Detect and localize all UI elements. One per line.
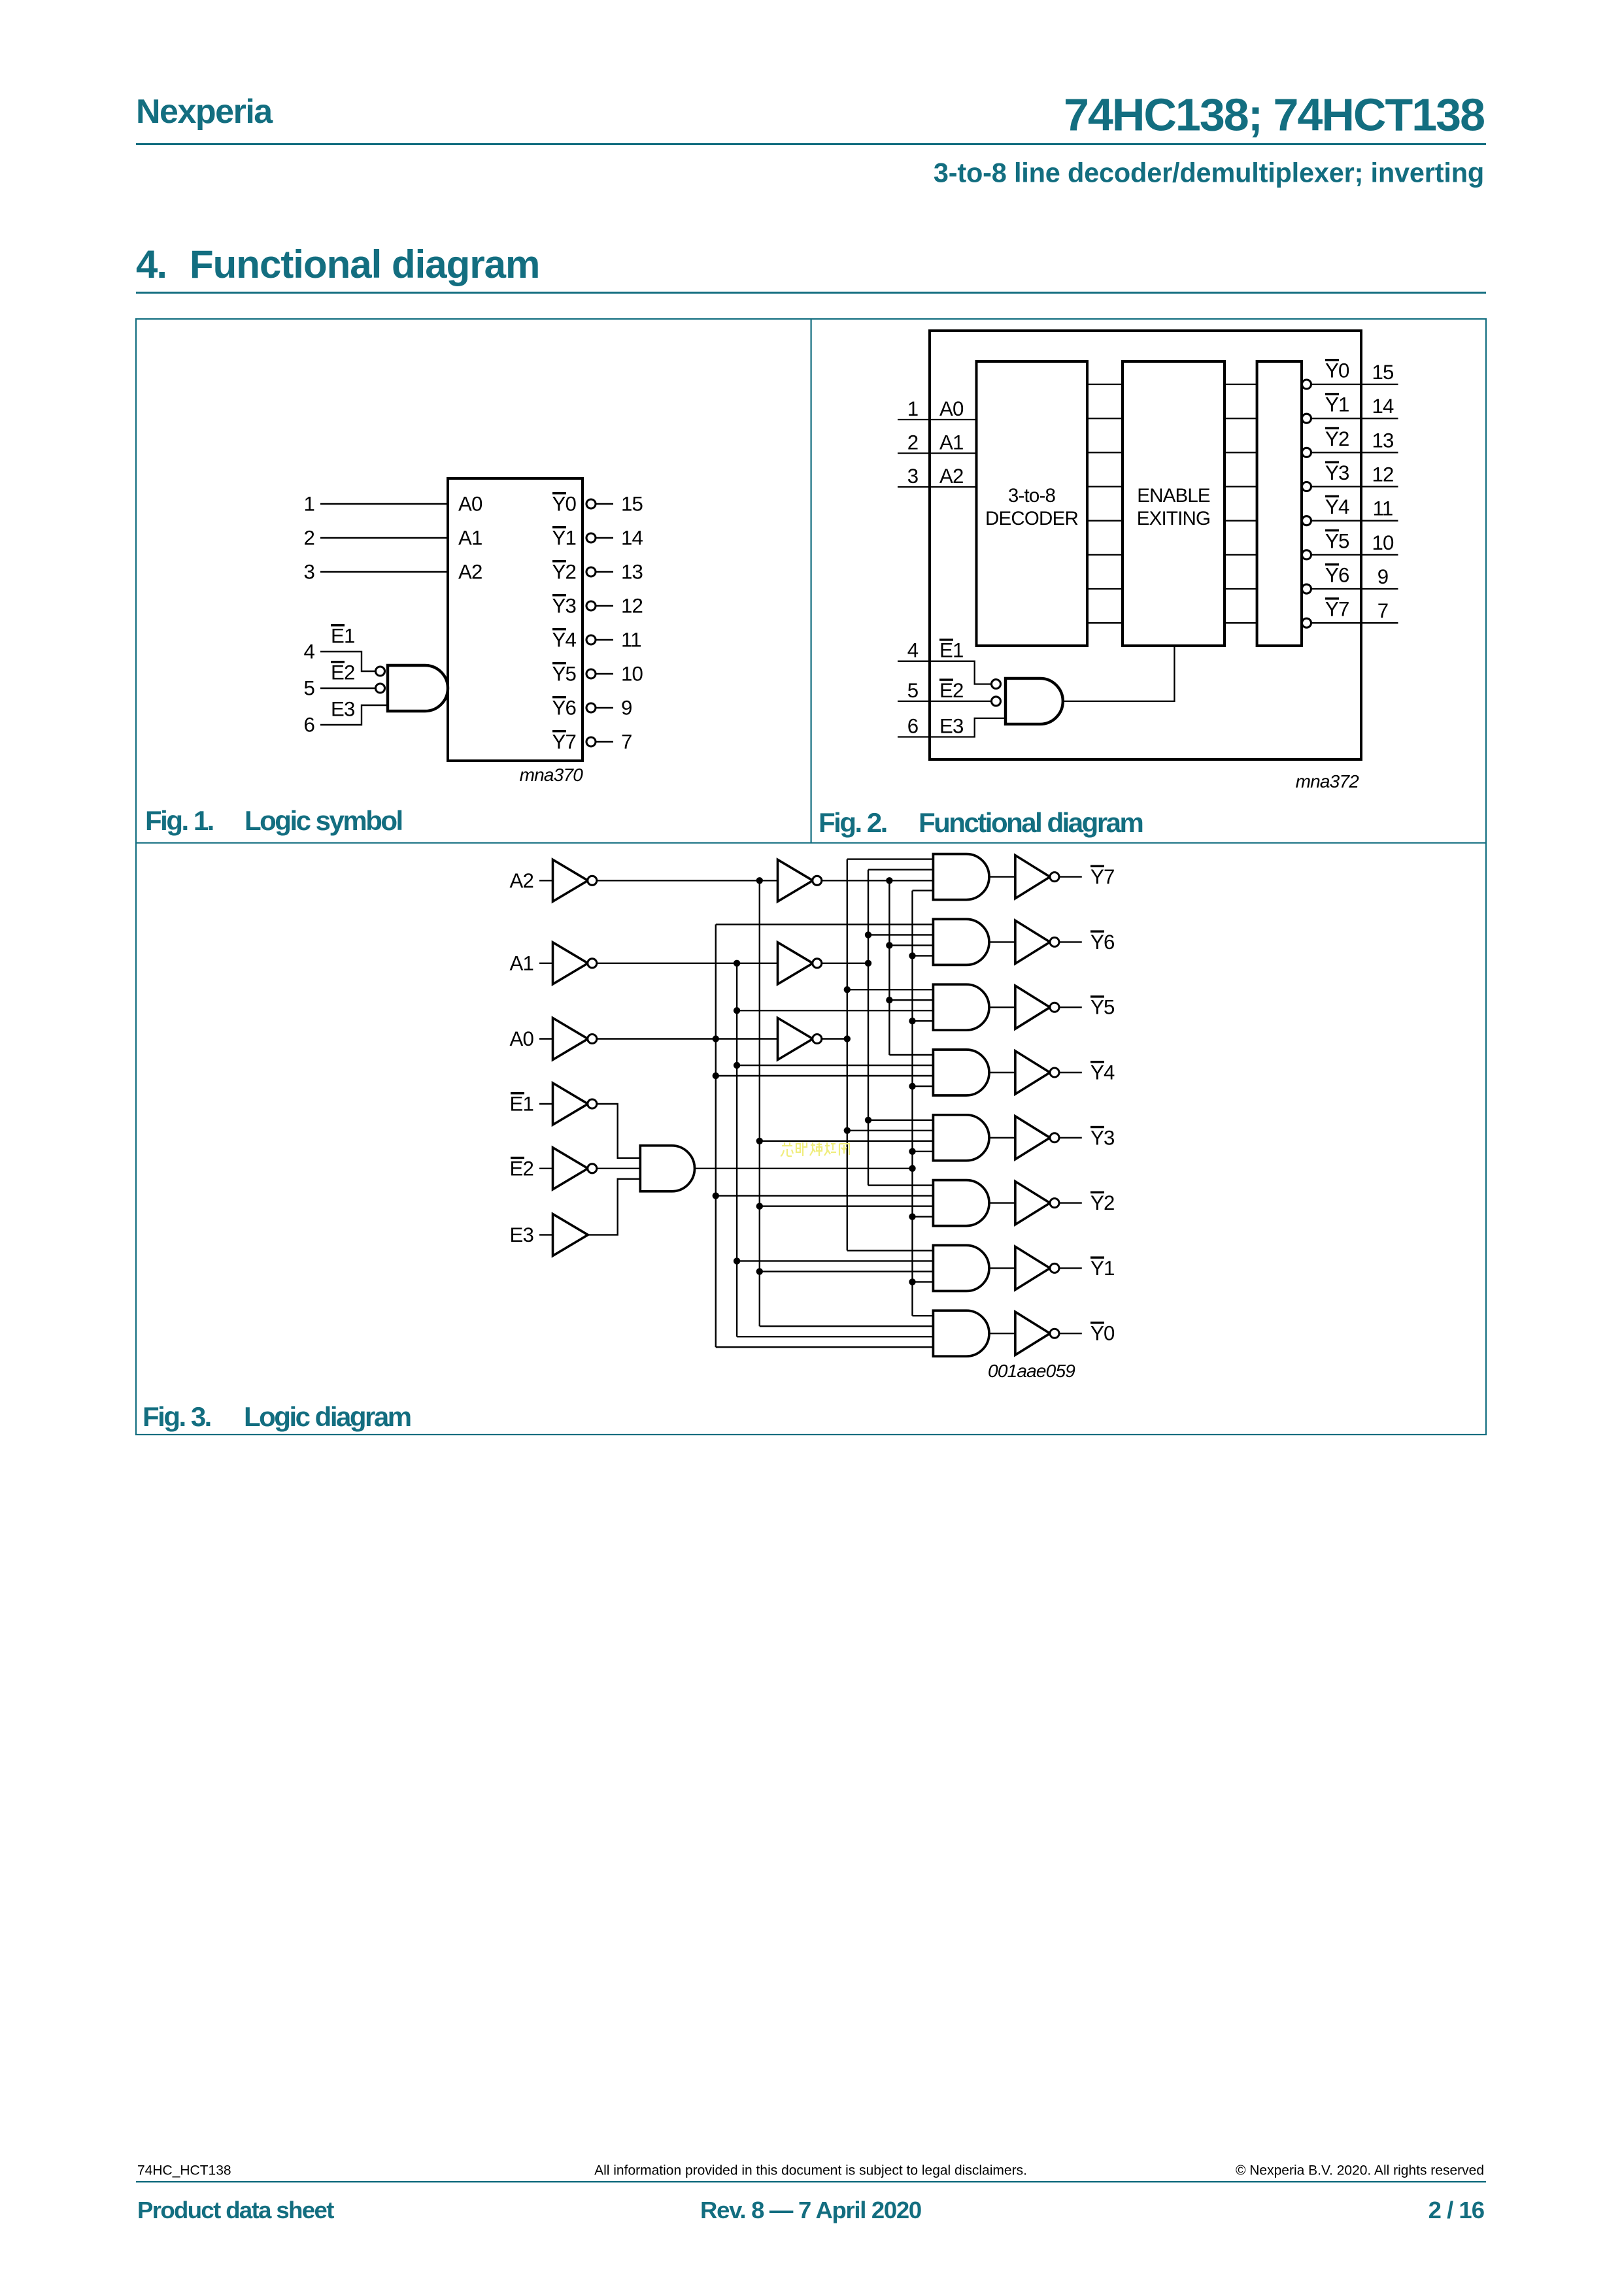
Fig.3 output inverter Y6 [1015,920,1050,963]
Fig.3 wire input 3 of gate Y0 [737,1336,933,1337]
Fig.3 inverter E1 (first stage) [553,1083,588,1125]
Fig.1 wire pin 3 to A2 [320,571,448,573]
Fig.3 wire E2 to enable gate [596,1168,640,1169]
Fig.3 wire input 1 of gate Y0 [913,1315,934,1316]
Fig.2 decoder-to-enable link wire 2 [1087,452,1123,453]
Fig.3 wire A2 complement run [596,880,777,881]
Fig.3 vertical bus A2 complement [759,880,760,1326]
Fig.2 wire pin 6 (E3) to gate [898,718,1005,737]
Fig.3 AND gate Y1 [933,1245,989,1291]
svg-text:Y3: Y3 [1090,1126,1115,1149]
Fig.3 wire gate Y4 to inverter [989,1072,1015,1073]
Fig.2 outer IC boundary box [930,331,1361,759]
svg-text:Y5: Y5 [1325,529,1349,552]
Fig.3 junction on bus at gate Y3 input 3 [756,1138,763,1144]
svg-text:11: 11 [1373,497,1393,520]
Fig.3 junction on bus at gate Y6 input 3 [886,942,892,948]
svg-text:14: 14 [621,527,643,550]
svg-text:3-to-8: 3-to-8 [1008,485,1056,507]
svg-text:Y4: Y4 [1090,1061,1115,1084]
svg-text:E3: E3 [331,698,355,721]
Fig.3 junction on bus at gate Y5 input 2 [886,997,892,1003]
Fig.3 junction on bus at gate Y3 input 1 [865,1117,871,1123]
Fig.3 junction A0 complement tap [713,1035,719,1042]
Fig.2 output wire Y4 pin 11 [1311,520,1398,522]
Fig.3 inverter bubble A0 [588,1035,597,1044]
svg-text:Nexperia: Nexperia [136,93,273,131]
Fig.1 output wire pin 12 [596,605,614,607]
Fig.3 input stub wire E3 [539,1234,553,1235]
Fig.2 decoder-to-enable link wire 3 [1087,486,1123,487]
Fig.2 decoder-to-enable link wire 5 [1087,554,1123,556]
svg-text:9: 9 [621,697,632,720]
Fig.3 inverter A1 (first stage) [553,942,588,984]
Fig.3 wire gate Y7 to inverter [989,876,1015,877]
Fig.2 output bubble Y0 [1302,380,1311,389]
Fig.3 inverter E3 (first stage) [553,1214,588,1256]
svg-text:E3: E3 [939,715,964,738]
Fig.3 vertical bus enable [911,891,913,1316]
Fig.3 output inverter bubble Y7 [1050,873,1059,882]
svg-text:E1: E1 [331,625,355,648]
svg-text:Fig. 2.: Fig. 2. [819,807,887,838]
Fig.3 output inverter bubble Y4 [1050,1068,1059,1077]
Fig.3 wire input 2 of gate Y7 [868,869,933,870]
svg-text:Y2: Y2 [552,561,576,584]
Fig.3 output wire Y5 [1059,1007,1082,1008]
figure frame horizontal divider [136,842,1486,844]
svg-text:A2: A2 [458,561,482,584]
Fig.2 wire pin 1 (A0) into decoder [898,419,977,420]
Fig.3 wire input 1 of gate Y1 [847,1250,934,1251]
Fig.2 enable-to-buffer link wire 2 [1225,452,1257,453]
svg-text:E2: E2 [939,679,964,702]
svg-text:Y2: Y2 [1325,427,1349,450]
svg-text:12: 12 [1372,463,1393,486]
Fig.3 junction A1 true tap [865,960,871,967]
svg-text:Y3: Y3 [1325,461,1349,484]
svg-text:13: 13 [621,561,643,584]
Fig.2 output bubble Y3 [1302,482,1311,491]
svg-text:5: 5 [303,677,314,700]
svg-text:6: 6 [303,714,314,737]
Fig.3 inverter bubble A2 [588,876,597,885]
Fig.3 output wire Y2 [1059,1202,1082,1203]
Fig.3 inverter bubble E1 [588,1099,597,1108]
Fig.3 wire input 2 of gate Y5 [889,999,933,1001]
Fig.3 inverter bubble A1 second stage [813,959,822,968]
Fig.3 inverter bubble A2 second stage [813,876,822,885]
svg-text:15: 15 [621,493,643,516]
Fig.3 wire input 4 of gate Y1 [913,1281,934,1282]
Fig.3 wire gate Y1 to inverter [989,1267,1015,1269]
Fig.3 input stub wire A2 [539,880,553,881]
Fig.3 output inverter bubble Y6 [1050,937,1059,946]
svg-text:Logic symbol: Logic symbol [245,805,402,836]
svg-text:Logic diagram: Logic diagram [244,1401,411,1432]
Fig.1 output wire pin 15 [596,503,614,505]
Fig.3 output wire Y7 [1059,876,1082,877]
Fig.3 wire A2 true run to gate Y7 [821,880,933,881]
svg-text:Y6: Y6 [1325,564,1349,587]
Fig.3 wire input 2 of gate Y6 [868,934,933,935]
svg-text:Y4: Y4 [1325,495,1349,518]
Fig.1 output wire pin 10 [596,673,614,674]
Fig.3 wire input 2 of gate Y2 [716,1195,934,1196]
Fig.2 gate input bubble E1 [992,680,1001,689]
Fig.3 inverter A2 (first stage) [553,859,588,901]
svg-text:6: 6 [907,715,919,738]
Fig.3 wire input 3 of gate Y2 [760,1205,934,1206]
Fig.2 enable AND gate [1005,678,1063,724]
Fig.3 wire A0 complement run [596,1038,777,1039]
svg-text:Y5: Y5 [1090,996,1115,1019]
Fig.2 output wire Y2 pin 13 [1311,452,1398,453]
svg-text:A2: A2 [509,869,533,892]
Fig.2 enable-to-buffer link wire 5 [1225,554,1257,556]
Fig.3 AND gate Y5 [933,984,989,1030]
svg-text:Y7: Y7 [1090,865,1115,888]
Fig.1 wire pin 6 (E3) to gate [320,705,388,725]
Fig.2 enable-to-buffer link wire 3 [1225,486,1257,487]
Fig.2 wire pin 2 (A1) into decoder [898,452,977,454]
Fig.3 wire gate Y3 to inverter [989,1137,1015,1139]
Fig.3 inverter bubble A0 second stage [813,1035,822,1044]
svg-text:1: 1 [907,397,919,420]
svg-text:Fig. 1.: Fig. 1. [145,805,213,836]
Fig.2 enable-to-buffer link wire 4 [1225,520,1257,522]
Fig.3 output inverter Y4 [1015,1051,1050,1094]
Fig.3 wire input 4 of gate Y4 [913,1086,934,1087]
Fig.2 wire pin 3 (A2) into decoder [898,486,977,488]
Fig.3 wire input 2 of gate Y0 [760,1325,934,1327]
Fig.3 wire gate Y6 to inverter [989,941,1015,942]
svg-text:EXITING: EXITING [1137,508,1210,529]
Fig.1 output bubble Y0 [586,499,596,508]
svg-text:Y0: Y0 [1325,359,1349,382]
Fig.3 wire input 3 of gate Y6 [889,944,933,946]
Fig.3 wire input 1 of gate Y5 [847,989,934,990]
svg-text:A1: A1 [509,952,533,974]
svg-text:9: 9 [1377,565,1389,588]
svg-text:74HC_HCT138: 74HC_HCT138 [137,2163,231,2178]
Fig.1 output bubble Y1 [586,533,596,542]
svg-text:E3: E3 [509,1223,533,1246]
Fig.3 wire input 2 of gate Y3 [847,1130,934,1131]
Fig.3 junction on bus at gate Y1 input 2 [734,1257,740,1264]
svg-text:1: 1 [303,493,314,516]
svg-text:E2: E2 [509,1157,533,1180]
svg-text:Functional diagram: Functional diagram [190,242,539,286]
Fig.1 wire pin 4 (E1) to gate bubble [320,652,376,671]
Fig.2 decoder-to-enable link wire 1 [1087,418,1123,419]
Fig.3 output inverter Y0 [1015,1312,1050,1355]
svg-text:Product data sheet: Product data sheet [137,2197,334,2223]
Fig.3 output inverter Y5 [1015,986,1050,1029]
Fig.3 wire input 1 of gate Y3 [868,1120,933,1121]
Fig.3 junction on bus at gate Y5 input 4 [909,1018,915,1024]
Fig.3 AND gate Y4 [933,1050,989,1095]
Fig.2 output bubble Y1 [1302,414,1311,423]
Fig.3 junction on bus at gate Y1 input 4 [909,1278,915,1285]
Fig.3 AND gate Y7 [933,854,989,900]
Fig.3 vertical bus A2 true [888,880,890,1055]
svg-text:2 / 16: 2 / 16 [1428,2197,1484,2223]
svg-text:Y1: Y1 [1090,1257,1115,1280]
Fig.3 junction A0 true tap [844,1035,851,1042]
Fig.1 output wire pin 13 [596,571,614,573]
svg-text:E2: E2 [331,661,355,684]
Fig.3 AND gate Y6 [933,919,989,965]
Fig.3 inverter A2 (second stage) [778,859,813,901]
svg-text:Y6: Y6 [1090,931,1115,954]
Fig.3 output inverter bubble Y1 [1050,1263,1059,1273]
svg-text:Y5: Y5 [552,663,576,686]
Fig.3 output inverter bubble Y2 [1050,1199,1059,1208]
Fig.3 input stub wire A1 [539,963,553,964]
Fig.3 junction on bus at gate Y3 input 2 [844,1127,851,1134]
Fig.3 junction on bus at gate Y4 input 3 [713,1073,719,1079]
Fig.1 output bubble Y3 [586,601,596,610]
Fig.3 wire input 3 of gate Y4 [716,1075,934,1076]
Fig.3 wire input 3 of gate Y1 [760,1271,934,1272]
Fig.3 output wire Y0 [1059,1333,1082,1334]
Fig.2 block 3-to-8 DECODER box [977,361,1088,646]
Fig.2 gate output wire to ENABLE block [1063,646,1175,701]
Fig.3 wire enable gate output to enable bus [695,1168,913,1169]
Fig.1 output wire pin 14 [596,537,614,539]
svg-text:001aae059: 001aae059 [988,1361,1075,1381]
Fig.2 output wire Y3 pin 12 [1311,486,1398,487]
svg-text:mna370: mna370 [520,765,584,785]
Fig.3 inverter bubble A1 [588,959,597,968]
Fig.3 vertical bus A1 complement [736,963,737,1337]
Fig.2 output bubble Y2 [1302,448,1311,457]
Fig.2 decoder-to-enable link wire 7 [1087,622,1123,624]
Fig.3 wire E3 to enable gate [588,1179,640,1235]
svg-text:Fig. 3.: Fig. 3. [143,1401,211,1432]
Fig.3 junction on bus at gate Y3 input 4 [909,1148,915,1155]
Fig.3 wire input 4 of gate Y2 [913,1216,934,1217]
Fig.2 decoder-to-enable link wire 4 [1087,520,1123,522]
svg-text:Y3: Y3 [552,595,576,618]
Fig.1 output wire pin 7 [596,741,614,742]
footer rule [136,2181,1486,2182]
Fig.3 junction A1 complement tap [734,960,740,967]
svg-text:3: 3 [907,465,919,488]
svg-text:15: 15 [1372,361,1394,384]
Fig.2 decoder-to-enable link wire 0 [1087,384,1123,385]
Fig.3 output inverter bubble Y0 [1050,1329,1059,1338]
Fig.2 output bubble Y5 [1302,550,1311,559]
Fig.2 output buffer narrow box [1257,361,1302,646]
Fig.2 output wire Y7 pin 7 [1311,622,1398,624]
Fig.3 junction on bus at gate Y4 input 2 [734,1062,740,1069]
Fig.2 enable-to-buffer link wire 0 [1225,384,1257,385]
Fig.2 output wire Y0 pin 15 [1311,384,1398,385]
svg-text:5: 5 [907,679,919,702]
Fig.3 output inverter Y3 [1015,1116,1050,1159]
Fig.3 output inverter Y2 [1015,1182,1050,1225]
svg-text:Y4: Y4 [552,629,576,652]
Fig.3 wire A1 true run [821,963,868,964]
Fig.3 junction on bus at gate Y1 input 3 [756,1268,763,1274]
Fig.3 junction on bus at gate Y5 input 1 [844,986,851,993]
section heading rule [136,292,1486,294]
Fig.2 gate input bubble E2 [992,697,1001,706]
svg-text:12: 12 [621,595,643,618]
Fig.3 wire input 3 of gate Y5 [737,1010,933,1011]
Fig.1 output bubble Y6 [586,703,596,712]
Fig.3 output wire Y6 [1059,941,1082,942]
Fig.3 wire input 1 of gate Y2 [868,1184,933,1186]
Fig.3 output wire Y1 [1059,1267,1082,1269]
svg-text:A0: A0 [458,493,482,516]
svg-text:4: 4 [303,641,314,663]
svg-text:A2: A2 [939,465,964,488]
svg-text:11: 11 [621,629,641,652]
Fig.2 enable-to-buffer link wire 1 [1225,418,1257,419]
Fig.2 output bubble Y6 [1302,584,1311,593]
Fig.3 output inverter bubble Y5 [1050,1003,1059,1012]
Fig.3 junction on bus at gate Y2 input 4 [909,1213,915,1220]
Fig.3 input stub wire A0 [539,1038,553,1039]
svg-text:2: 2 [303,527,314,550]
Fig.3 wire input 1 of gate Y6 [716,923,934,925]
Fig.1 output wire pin 11 [596,639,614,641]
svg-text:E1: E1 [509,1093,533,1116]
Fig.2 enable-to-buffer link wire 6 [1225,588,1257,590]
svg-text:Y0: Y0 [1090,1322,1115,1345]
svg-text:10: 10 [621,663,643,686]
Fig.2 block ENABLE EXITING box [1123,361,1225,646]
Fig.3 wire E1 to enable gate [596,1104,640,1158]
Fig.3 wire gate Y5 to inverter [989,1007,1015,1008]
Fig.1 output wire pin 9 [596,707,614,708]
svg-text:E1: E1 [939,639,964,662]
Fig.3 junction on bus at gate Y5 input 3 [734,1007,740,1014]
Fig.3 junction on bus at gate Y6 input 2 [865,931,871,938]
Fig.3 wire input 1 of gate Y7 [847,858,934,859]
Fig.3 vertical bus A0 complement [715,924,717,1347]
Fig.3 wire input 4 of gate Y7 [913,890,934,891]
Fig.3 vertical bus A0 true [847,859,848,1251]
svg-text:Y1: Y1 [1325,393,1349,416]
Fig.2 output wire Y6 pin 9 [1311,588,1398,590]
svg-text:74HC138; 74HCT138: 74HC138; 74HCT138 [1064,90,1484,141]
svg-text:Y0: Y0 [552,493,576,516]
Fig.3 output wire Y4 [1059,1072,1082,1073]
svg-text:A0: A0 [509,1027,533,1050]
Fig.1 output bubble Y5 [586,669,596,678]
Fig.3 junction on bus at gate Y6 input 4 [909,952,915,959]
svg-text:14: 14 [1372,395,1394,418]
Fig.3 wire input 4 of gate Y5 [913,1020,934,1022]
Fig.2 output wire Y1 pin 14 [1311,418,1398,419]
Fig.3 wire input 1 of gate Y4 [889,1054,933,1056]
Fig.3 wire input 4 of gate Y6 [913,955,934,956]
Fig.1 gate input bubble E2 [376,684,385,693]
Fig.1 output bubble Y2 [586,567,596,576]
Fig.3 output inverter Y1 [1015,1246,1050,1289]
Fig.2 output wire Y5 pin 10 [1311,554,1398,556]
Fig.1 output bubble Y7 [586,737,596,746]
Fig.3 watermark [781,1142,849,1156]
Fig.3 junction A2 complement tap [756,877,763,884]
Fig.3 output inverter Y7 [1015,856,1050,899]
Fig.3 inverter bubble E2 [588,1164,597,1173]
svg-text:7: 7 [621,731,632,754]
svg-text:10: 10 [1372,531,1394,554]
svg-text:Y7: Y7 [552,731,576,754]
svg-text:7: 7 [1377,599,1389,622]
svg-text:A0: A0 [939,397,964,420]
svg-text:4: 4 [907,639,919,662]
Fig.3 inverter A1 (second stage) [778,942,813,984]
Fig.3 wire gate Y0 to inverter [989,1333,1015,1334]
Fig.3 enable AND gate [640,1146,694,1191]
svg-text:3-to-8 line decoder/demultiple: 3-to-8 line decoder/demultiplexer; inver… [934,158,1484,188]
svg-text:DECODER: DECODER [985,508,1078,529]
Fig.3 input stub wire E2 [539,1168,553,1169]
Fig.1 wire pin 5 (E2) to gate bubble [320,688,376,689]
Fig.3 AND gate Y3 [933,1115,989,1161]
Fig.1 IC body box [448,478,583,761]
Fig.3 wire gate Y2 to inverter [989,1202,1015,1203]
svg-text:Y1: Y1 [552,527,576,550]
Fig.3 junction enable feed [909,1165,915,1172]
Fig.3 inverter E2 (first stage) [553,1148,588,1190]
Fig.1 gate input bubble E1 [376,667,385,676]
Fig.3 wire input 2 of gate Y4 [737,1065,933,1066]
Fig.3 wire A0 true run [821,1038,847,1039]
Fig.3 inverter A0 (second stage) [778,1018,813,1060]
svg-text:Y7: Y7 [1325,598,1349,621]
svg-text:Y6: Y6 [552,697,576,720]
Fig.1 wire pin 2 to A1 [320,537,448,539]
svg-text:2: 2 [907,431,919,454]
svg-text:Y2: Y2 [1090,1191,1115,1214]
Fig.2 wire pin 4 (E1) to gate bubble [898,661,992,684]
Fig.3 AND gate Y2 [933,1180,989,1226]
Fig.2 output bubble Y7 [1302,618,1311,627]
svg-text:A1: A1 [939,431,964,454]
Fig.2 enable-to-buffer link wire 7 [1225,622,1257,624]
Fig.1 enable AND gate [388,665,448,711]
figure frame vertical divider [811,319,812,842]
Fig.3 input stub wire E1 [539,1103,553,1105]
svg-text:13: 13 [1372,429,1393,452]
Fig.3 wire input 3 of gate Y3 [760,1140,934,1142]
svg-text:A1: A1 [458,527,482,550]
Fig.3 output inverter bubble Y3 [1050,1133,1059,1142]
Fig.1 output bubble Y4 [586,635,596,644]
svg-text:mna372: mna372 [1296,771,1360,791]
Fig.3 inverter A0 (first stage) [553,1018,588,1060]
Fig.3 junction on bus at gate Y2 input 2 [713,1192,719,1199]
Fig.3 wire A1 complement run [596,963,777,964]
svg-text:Rev. 8 — 7 April 2020: Rev. 8 — 7 April 2020 [700,2197,921,2223]
Fig.2 wire pin 5 (E2) to gate bubble [898,701,992,702]
Fig.2 decoder-to-enable link wire 6 [1087,588,1123,590]
header rule [136,143,1486,145]
svg-text:All information provided in th: All information provided in this documen… [594,2163,1027,2178]
svg-text:3: 3 [303,561,314,584]
Fig.3 AND gate Y0 [933,1310,989,1356]
Fig.3 junction on bus at gate Y2 input 3 [756,1203,763,1209]
figure frame border [136,319,1486,1435]
Fig.3 wire input 4 of gate Y0 [716,1346,934,1348]
